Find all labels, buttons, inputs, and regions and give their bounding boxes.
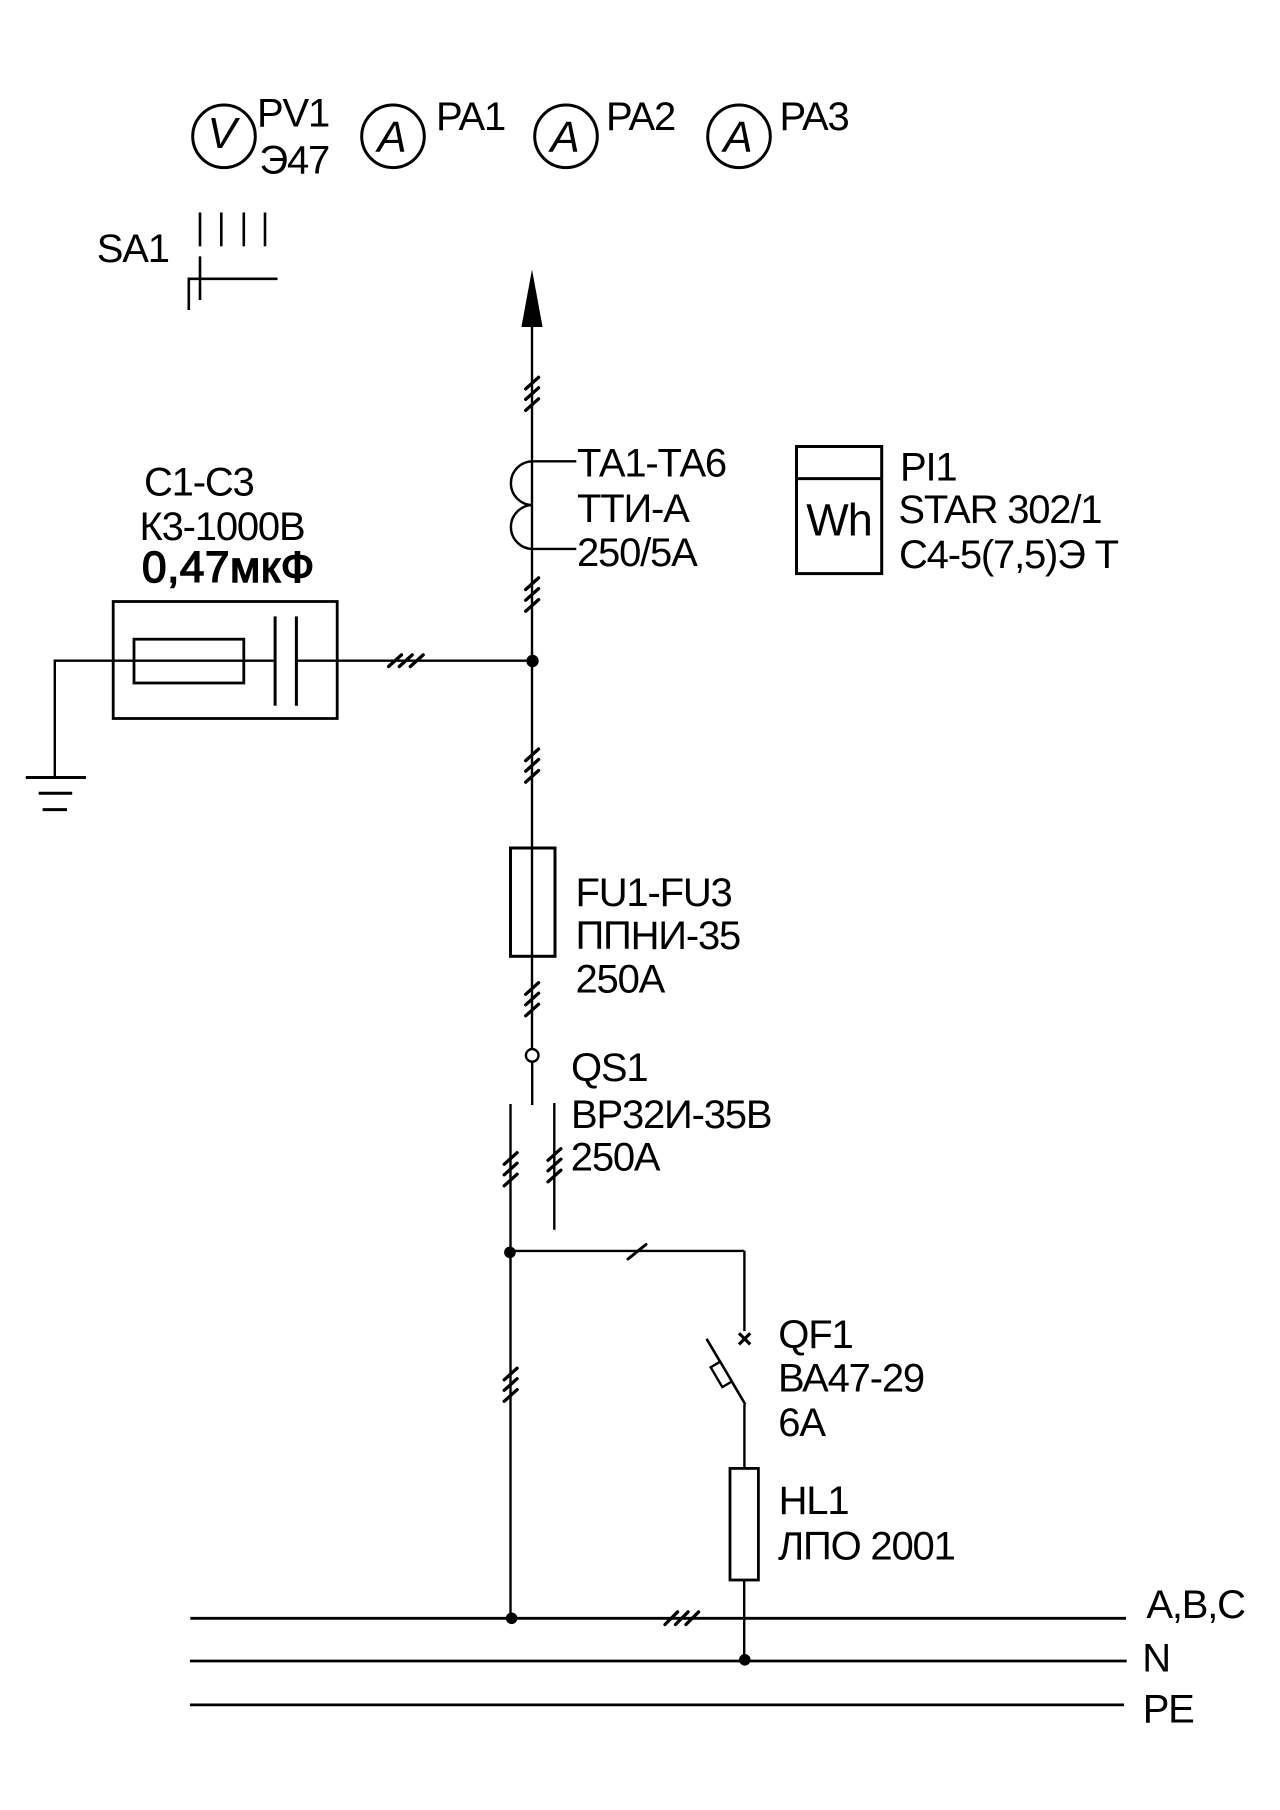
svg-text:PA2: PA2 [606, 95, 675, 139]
3-phase hash on capacitor wire [389, 655, 424, 667]
wire ground drop [54, 660, 56, 778]
svg-text:С4-5(7,5)Э Т: С4-5(7,5)Э Т [899, 533, 1119, 577]
svg-text:FU1-FU3: FU1-FU3 [576, 871, 732, 915]
svg-text:Wh: Wh [806, 495, 872, 546]
busbar PE [190, 1704, 1124, 1707]
svg-text:V: V [207, 109, 240, 158]
3-phase hash on trunk (below junction) [526, 749, 539, 782]
busbar A,B,C [190, 1617, 1126, 1620]
circuit breaker QF1 release box [711, 1362, 732, 1387]
3-phase hash on QS1 left line [504, 1153, 517, 1186]
1-phase slash on branch wire [628, 1245, 646, 1260]
svg-text:N: N [1142, 1637, 1170, 1681]
ammeter PA3 [708, 105, 771, 168]
svg-text:A,B,C: A,B,C [1146, 1583, 1245, 1627]
node junction lamp wire on N [739, 1654, 751, 1666]
capacitor block outer box [113, 602, 337, 719]
wire QS1 stub below circle [531, 1062, 533, 1105]
svg-text:PA3: PA3 [780, 95, 849, 139]
wire QS1 right pole [553, 1103, 555, 1230]
wire trunk arrow to fuse [531, 327, 533, 848]
svg-text:ВР32И-35В: ВР32И-35В [571, 1093, 771, 1137]
svg-text:0,47мкФ: 0,47мкФ [142, 543, 315, 592]
wire ground to capacitor [55, 660, 275, 662]
svg-text:PA1: PA1 [436, 95, 505, 139]
svg-text:A: A [720, 113, 752, 162]
3-phase hash on busbar A,B,C [665, 1612, 699, 1625]
svg-text:STAR 302/1: STAR 302/1 [898, 488, 1101, 532]
wire QF1 to lamp [743, 1404, 745, 1468]
svg-text:PV1: PV1 [257, 91, 329, 135]
wire capacitor to trunk [296, 660, 532, 662]
wire branch drop to QF1 [743, 1251, 745, 1331]
svg-text:ППНИ-35: ППНИ-35 [576, 914, 741, 958]
circuit breaker QF1 blade [707, 1339, 746, 1405]
disconnector QS1 contact circle [526, 1049, 539, 1062]
circuit breaker QF1 fixed contact x [739, 1333, 750, 1344]
ammeter PA2 [535, 105, 598, 168]
svg-text:SA1: SA1 [97, 227, 169, 271]
svg-text:Э47: Э47 [259, 139, 329, 183]
ammeter PA1 [362, 105, 425, 168]
wire branch to QF1 [510, 1250, 745, 1252]
svg-text:250/5А: 250/5А [577, 531, 698, 575]
svg-text:ЛПО 2001: ЛПО 2001 [778, 1525, 955, 1569]
svg-text:С1-С3: С1-С3 [144, 461, 254, 505]
3-phase hash on left drop [504, 1368, 517, 1401]
busbar N [190, 1660, 1127, 1663]
3-phase hash on trunk (below fuse) [526, 983, 539, 1016]
capacitor C1-C3 plates [275, 616, 296, 705]
svg-text:PE: PE [1143, 1687, 1194, 1731]
lamp HL1 [730, 1468, 758, 1580]
wire QS1 left pole [509, 1104, 511, 1252]
voltmeter PV1 [193, 105, 256, 168]
ground [26, 778, 86, 810]
svg-text:QF1: QF1 [778, 1313, 852, 1357]
fuse FU1-FU3 [511, 848, 556, 956]
node junction QS1 bottom [504, 1247, 516, 1259]
resistor (discharge) inner box [134, 639, 244, 683]
svg-text:A: A [547, 113, 579, 162]
switch SA1 [189, 213, 278, 311]
svg-text:ТА1-ТА6: ТА1-ТА6 [577, 442, 726, 486]
wire fuse to QS1 [531, 956, 533, 1049]
3-phase hash on QS1 right line [548, 1149, 561, 1182]
svg-text:250А: 250А [571, 1136, 661, 1180]
svg-text:6А: 6А [778, 1401, 826, 1445]
current transformer TA1-TA6 [511, 461, 576, 549]
wire left drop to busbar [509, 1252, 511, 1618]
3-phase hash on trunk (below TT) [526, 578, 539, 611]
wire lamp to N [743, 1580, 745, 1660]
node junction trunk-capacitor [526, 655, 538, 667]
svg-text:HL1: HL1 [779, 1479, 849, 1523]
arrow (outgoing feeder) [521, 270, 542, 328]
3-phase hash on trunk (upper) [526, 377, 539, 410]
energy meter PI1 box [797, 447, 882, 574]
svg-text:PI1: PI1 [900, 446, 956, 490]
svg-text:ТТИ-А: ТТИ-А [577, 487, 690, 531]
svg-text:QS1: QS1 [571, 1046, 647, 1090]
svg-text:ВА47-29: ВА47-29 [778, 1356, 924, 1400]
node junction left drop on A,B,C [506, 1613, 518, 1625]
svg-text:A: A [374, 113, 406, 162]
svg-text:250А: 250А [576, 958, 666, 1002]
